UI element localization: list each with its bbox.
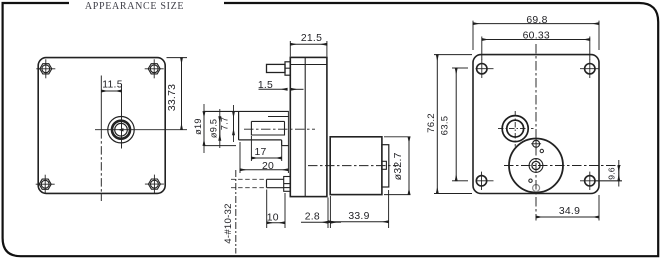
- dimension dia9.5: [209, 109, 220, 148]
- mounting boss: [267, 179, 284, 187]
- svg-text:76.2: 76.2: [426, 113, 437, 133]
- svg-text:20: 20: [262, 161, 274, 172]
- boss bottom at face: [282, 140, 289, 146]
- svg-text:9.6: 9.6: [606, 167, 616, 180]
- svg-text:7.7: 7.7: [220, 117, 230, 131]
- hole top-right: [580, 60, 600, 79]
- screw top-right: [145, 59, 164, 78]
- shaft axis centerline: [244, 128, 315, 130]
- dimension 17: [251, 136, 281, 161]
- output shaft side: boss top line: [204, 110, 289, 112]
- output shaft front circles: [108, 117, 134, 143]
- plate vertical centerline: [100, 130, 102, 201]
- shaft outline: [239, 111, 289, 139]
- svg-text:APPEARANCE SIZE: APPEARANCE SIZE: [85, 1, 184, 12]
- dimension 11.5: [101, 76, 122, 131]
- screw spec leader 4-#10-32: [223, 170, 236, 254]
- motor screw bottom: [533, 185, 540, 192]
- svg-text:11.5: 11.5: [102, 80, 122, 91]
- shaft flat (keyway): [251, 121, 284, 135]
- dimension 69.8: [473, 15, 599, 50]
- gearbox back plate: [473, 55, 599, 194]
- boss block at body: [284, 177, 291, 192]
- dimension 63.5: [439, 68, 468, 181]
- screw top-left: [36, 59, 55, 78]
- dimension 9.6: [595, 160, 622, 187]
- svg-text:34.9: 34.9: [559, 206, 580, 217]
- svg-text:60.33: 60.33: [523, 31, 550, 42]
- dimension 20: [240, 111, 288, 173]
- dimension 33.9: [328, 190, 388, 228]
- worm shaft stub: [267, 64, 286, 72]
- motor horizontal centerline: [504, 165, 622, 167]
- back shaft circles: [498, 111, 534, 147]
- svg-text:63.5: 63.5: [439, 116, 450, 136]
- screw bottom-right: [145, 175, 164, 194]
- dimension 21.5: [290, 33, 327, 57]
- shaft vertical centerline: [121, 84, 123, 149]
- motor outline circle: [509, 139, 563, 193]
- dimension 10: [267, 190, 285, 229]
- gearbox front plate: [38, 58, 165, 194]
- motor small hole bottom-left: [529, 179, 532, 182]
- hole bottom-right: [580, 172, 622, 190]
- shaft center arrow mark: [118, 128, 124, 131]
- svg-text:10: 10: [267, 213, 279, 224]
- svg-text:69.8: 69.8: [526, 15, 547, 26]
- dimension 60.33: [482, 31, 590, 60]
- motor shaft tip: [382, 161, 387, 169]
- motor end cap: [382, 145, 389, 187]
- hole bottom-left: [476, 172, 494, 190]
- motor screw top: [531, 139, 541, 149]
- svg-text:ø19: ø19: [193, 118, 203, 135]
- svg-text:ø32.7: ø32.7: [393, 152, 404, 180]
- mounting boss hidden lines: [231, 179, 267, 187]
- svg-text:ø9.5: ø9.5: [209, 119, 219, 138]
- dimension dia19: [193, 104, 204, 153]
- dimension 7.7: [220, 105, 234, 142]
- svg-text:4-#10-32: 4-#10-32: [223, 203, 234, 243]
- boss bottom ext line: [204, 145, 236, 147]
- dimension 76.2: [426, 55, 472, 194]
- svg-text:17: 17: [254, 147, 266, 158]
- motor small hole right: [540, 149, 543, 152]
- plate vertical centerline: [535, 44, 537, 221]
- hole top-left: [476, 60, 494, 79]
- motor hub circles: [529, 159, 543, 173]
- dimension 33.73: [167, 58, 188, 130]
- svg-text:33.73: 33.73: [167, 84, 178, 111]
- motor axis centerline: [308, 165, 398, 167]
- svg-text:2.8: 2.8: [305, 212, 320, 223]
- motor body side: [330, 137, 382, 195]
- dimension dia32.7: [384, 137, 411, 195]
- svg-text:21.5: 21.5: [301, 33, 322, 44]
- dimension 34.9: [536, 195, 599, 221]
- shaft horizontal centerline: [95, 129, 187, 131]
- gearbox body side: [290, 57, 327, 196]
- dimension 1.5: [258, 80, 304, 91]
- svg-text:33.9: 33.9: [348, 211, 369, 222]
- screw bottom-left: [36, 175, 55, 194]
- dimension 2.8: [301, 196, 341, 228]
- worm shaft hub: [285, 62, 290, 75]
